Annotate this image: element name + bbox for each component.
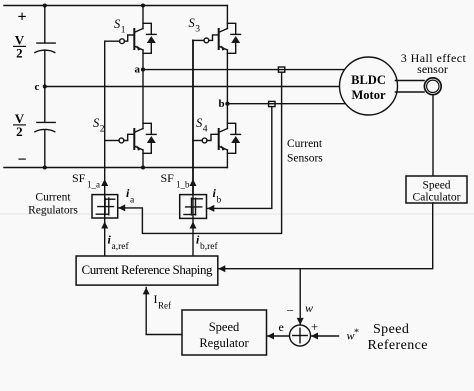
label SF1_b xyxy=(161,171,191,190)
wire hall sensor to speed calculator xyxy=(432,95,434,176)
label w* xyxy=(347,328,360,343)
svg-text:Speed: Speed xyxy=(373,322,409,337)
node S4 gate circle xyxy=(202,138,207,143)
label V/2 lower xyxy=(13,111,26,139)
label w xyxy=(305,301,313,315)
label Speed Regulator xyxy=(199,320,249,350)
wire top DC bus xyxy=(4,5,227,7)
svg-text:b: b xyxy=(217,196,222,206)
svg-text:b: b xyxy=(219,98,225,110)
svg-text:I: I xyxy=(154,292,158,306)
wire gate bus SF1_a vertical xyxy=(104,41,106,194)
label i_a xyxy=(126,186,135,206)
arrow w into shaping box xyxy=(218,265,225,272)
arrow e into speed regulator xyxy=(267,333,274,340)
node bottom rail junction xyxy=(43,165,47,169)
label - xyxy=(17,152,26,169)
svg-text:Sensors: Sensors xyxy=(287,152,323,164)
label node a xyxy=(135,64,141,76)
arrow w* into summer xyxy=(311,333,318,340)
svg-text:−: − xyxy=(17,152,26,169)
wire e output of summer xyxy=(267,335,289,337)
hall sensor symbol xyxy=(424,78,441,95)
svg-text:Ref: Ref xyxy=(158,301,171,311)
label I_Ref xyxy=(154,292,172,311)
label i_b,ref xyxy=(196,233,219,253)
svg-text:2: 2 xyxy=(16,124,23,139)
arrow I_Ref up into shaping box xyxy=(143,287,150,294)
svg-text:Motor: Motor xyxy=(351,88,385,102)
label e xyxy=(279,320,284,334)
svg-text:Reference: Reference xyxy=(368,338,428,353)
label 3 Hall effect sensor xyxy=(401,51,467,76)
svg-text:Calculator: Calculator xyxy=(413,192,461,204)
svg-text:c: c xyxy=(35,81,40,93)
capacitor C2 xyxy=(35,122,55,131)
svg-text:Regulator: Regulator xyxy=(199,336,249,350)
label node b xyxy=(219,98,225,110)
arrow i_b into block B xyxy=(207,205,214,212)
svg-text:Speed: Speed xyxy=(422,180,450,192)
label plus at summer xyxy=(311,319,318,334)
svg-text:Current: Current xyxy=(287,138,323,150)
node S2 leg to rail junction xyxy=(141,165,145,169)
wire i_b,ref from shaping box to block B xyxy=(192,218,194,256)
label i_a,ref xyxy=(108,233,130,253)
label V/2 upper xyxy=(13,33,26,61)
transistor Q1 (S1 IGBT with diode) xyxy=(134,6,156,70)
block speed calculator xyxy=(406,176,467,203)
node a junction xyxy=(141,68,145,72)
wire w* reference input xyxy=(311,335,338,337)
arrow w down into summer xyxy=(297,318,304,325)
block speed regulator xyxy=(182,310,267,355)
label Speed Reference xyxy=(368,322,428,353)
node + terminal junction xyxy=(43,3,47,7)
transistor Q4 (S4 IGBT with diode) xyxy=(219,104,241,168)
wire capacitor chain lower xyxy=(44,87,46,168)
node S1 leg to bus junction xyxy=(141,3,145,7)
label S4 xyxy=(196,116,208,135)
node b junction xyxy=(225,102,229,106)
svg-text:2: 2 xyxy=(100,125,105,135)
wire S1 gate lead xyxy=(105,35,135,41)
svg-text:1_b: 1_b xyxy=(176,180,190,190)
label Current Sensors xyxy=(287,138,323,164)
svg-text:−: − xyxy=(287,303,294,318)
wire phase a to motor xyxy=(143,69,345,71)
arrow SF1_b up xyxy=(190,179,197,186)
svg-text:Current: Current xyxy=(35,192,71,204)
wire I_Ref from speed regulator to shaping box xyxy=(146,288,182,335)
label i_b xyxy=(213,186,222,206)
wire S4 gate lead xyxy=(193,134,219,140)
arrow SF1_a up xyxy=(101,179,108,186)
arrow i_a into block A xyxy=(118,204,125,211)
label Current Reference Shaping xyxy=(82,262,214,277)
node c junction xyxy=(43,84,47,88)
svg-text:4: 4 xyxy=(203,125,208,135)
wire w feedback from speed calculator xyxy=(219,203,433,269)
svg-text:+: + xyxy=(17,9,26,26)
motor M1 (BLDC) xyxy=(340,57,398,115)
transistor Q2 (S2 IGBT with diode) xyxy=(134,70,156,168)
label Current Regulators xyxy=(28,192,78,217)
wire S3 gate lead xyxy=(193,35,219,41)
wire w branch to summing junction xyxy=(299,269,301,325)
current sensor on phase b xyxy=(269,101,275,106)
arrow i_b,ref up xyxy=(190,222,197,229)
node S1 gate circle xyxy=(120,39,125,44)
svg-text:a,ref: a,ref xyxy=(112,241,130,252)
wire phase b to motor xyxy=(227,103,345,105)
svg-text:*: * xyxy=(354,328,359,339)
wire bottom DC rail xyxy=(4,167,227,169)
label S2 xyxy=(93,116,105,135)
arrow i_a,ref up xyxy=(101,222,108,229)
label BLDC Motor xyxy=(351,73,386,102)
svg-text:2: 2 xyxy=(16,46,23,61)
label + xyxy=(17,9,26,26)
svg-text:1_a: 1_a xyxy=(87,180,100,190)
motor shaft xyxy=(396,81,425,93)
svg-text:b,ref: b,ref xyxy=(200,241,219,252)
svg-text:Regulators: Regulators xyxy=(28,205,78,217)
label c xyxy=(35,81,40,93)
current regulator block A (hysteresis) xyxy=(92,195,118,218)
svg-text:a: a xyxy=(135,64,141,76)
transistor Q3 (S3 IGBT with diode) xyxy=(219,6,241,104)
svg-text:1: 1 xyxy=(121,26,126,36)
label S3 xyxy=(189,16,201,35)
label Speed Calculator xyxy=(413,180,461,204)
wire i_b feedback path xyxy=(208,107,272,209)
wire i_a,ref from shaping box to block A xyxy=(104,218,106,256)
svg-text:e: e xyxy=(279,320,284,334)
block current reference shaping xyxy=(76,256,218,285)
svg-text:BLDC: BLDC xyxy=(351,73,386,87)
wire node c to motor xyxy=(45,86,340,88)
label S1 xyxy=(114,17,126,36)
label minus at summer xyxy=(287,303,294,318)
capacitor C1 xyxy=(35,43,55,52)
svg-text:Speed: Speed xyxy=(209,320,240,334)
node S2 gate circle xyxy=(119,138,124,143)
svg-text:SF: SF xyxy=(161,171,175,185)
wire i_a feedback path xyxy=(119,72,282,233)
wire capacitor chain upper xyxy=(44,6,46,87)
svg-text:+: + xyxy=(311,319,318,334)
svg-text:Current Reference Shaping: Current Reference Shaping xyxy=(82,262,214,277)
svg-text:SF: SF xyxy=(72,171,86,185)
svg-text:3: 3 xyxy=(195,25,200,35)
wire gate bus SF1_b vertical xyxy=(192,40,194,194)
wire S2 gate lead xyxy=(105,134,135,140)
summing junction xyxy=(290,325,311,346)
current regulator block B (hysteresis) xyxy=(180,195,207,219)
svg-text:sensor: sensor xyxy=(417,62,448,76)
svg-text:w: w xyxy=(305,301,313,315)
current sensor on phase a xyxy=(278,67,284,72)
label SF1_a xyxy=(72,171,100,190)
node S3 gate circle xyxy=(204,38,209,43)
